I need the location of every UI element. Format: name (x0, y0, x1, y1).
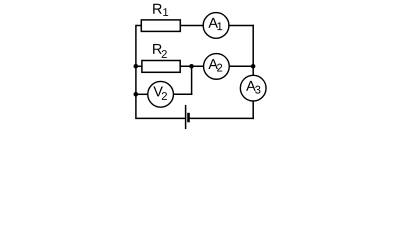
node: left rail / V2 branch (134, 92, 139, 97)
wire: R2 branch, left rail to R2 (136, 65, 142, 67)
wire: left rail vertical (135, 25, 137, 119)
resistor R1 (141, 20, 180, 32)
wire: right rail, A3 down to bottom corner (252, 101, 254, 120)
ammeter A1 (203, 13, 229, 39)
wire: R2 to A2 (through tap node) (180, 65, 204, 67)
label R2 (153, 44, 162, 54)
wire: tap vertical from R2-A2 node down to V2 wire (191, 66, 193, 95)
ammeter A3 (240, 75, 266, 101)
wire: battery short plate to bottom right corner (189, 117, 254, 119)
wire: R1 to A1 (180, 25, 203, 27)
node: R2 / A2 / V2 tap (189, 64, 194, 69)
wire: top branch, left rail to R1 (136, 25, 141, 27)
wire: right rail, top corner down to A2 node (252, 25, 254, 67)
voltmeter V2 (148, 81, 174, 107)
node: right rail / A2 branch (251, 64, 256, 69)
wire: right rail, A2 node down to A3 (252, 66, 254, 76)
battery: long plate (185, 105, 187, 129)
wire: A1 to right rail (229, 25, 254, 27)
battery: short thick plate (187, 113, 190, 123)
wire: bottom, left corner to battery long plate (136, 117, 186, 119)
resistor R2 (142, 61, 180, 73)
label R1 (153, 4, 162, 14)
wire: A2 to right rail (229, 65, 253, 67)
node: left rail / R2 branch (134, 64, 139, 69)
wire: V2 branch, left rail to V2 (136, 93, 148, 95)
wire: V2 to corner below tap (173, 93, 192, 95)
ammeter A2 (204, 54, 230, 80)
